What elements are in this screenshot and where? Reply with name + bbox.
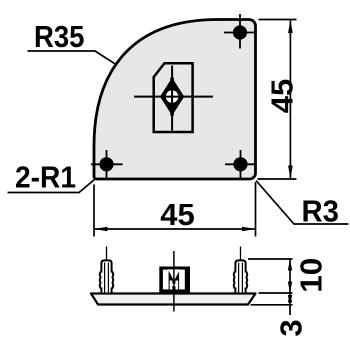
center boss centerlines: [134, 96, 213, 98]
label R3: [256, 181, 349, 225]
side view center screw boss: [159, 251, 190, 312]
center boss white circle: [166, 90, 179, 103]
plate outline (top view): [94, 20, 256, 180]
side view left peg: [100, 247, 113, 293]
svg-text:45: 45: [160, 197, 195, 232]
center boss outline (keystone): [154, 63, 193, 132]
center boss black body (rounded diamond): [163, 87, 182, 106]
dim right 45: dimension line: [289, 20, 291, 180]
svg-text:3: 3: [273, 319, 308, 336]
svg-text:10: 10: [294, 258, 329, 293]
svg-text:45: 45: [265, 79, 300, 114]
side view right peg: [234, 247, 247, 293]
hole bottom-left: [91, 150, 123, 180]
dim right 45: extension lines: [259, 19, 297, 21]
side dims: dimension line: [289, 259, 291, 315]
svg-text:R3: R3: [302, 194, 340, 229]
hole top-right: [224, 14, 256, 49]
hole bottom-right: [225, 150, 256, 180]
side dims: extension lines: [248, 258, 293, 260]
svg-text:R35: R35: [34, 19, 85, 54]
dim bottom 45: extension lines: [93, 185, 95, 237]
dim bottom 45: dimension line: [94, 228, 256, 230]
svg-text:2-R1: 2-R1: [15, 160, 76, 195]
side view base plate: [91, 294, 256, 305]
